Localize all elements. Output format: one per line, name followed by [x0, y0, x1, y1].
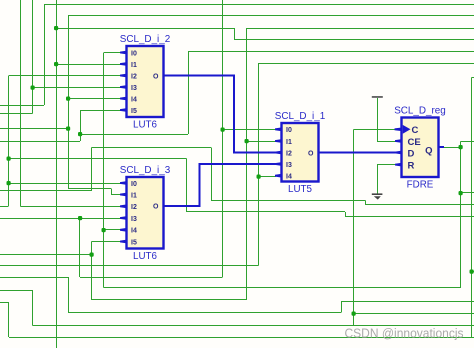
svg-text:SCL_D_i_1: SCL_D_i_1	[275, 111, 326, 122]
wire vertical net_i	[186, 159, 187, 213]
wire vertical net_f	[258, 63, 259, 266]
wire Q feedback bottom run	[104, 287, 461, 288]
wire staircase A bottom run	[33, 325, 474, 326]
junction dot junction I5 branch	[78, 132, 82, 136]
wire to I1 of SCL_D_i_3 part2	[111, 194, 121, 195]
pin I3 of SCL_D_i_1	[275, 162, 282, 166]
wire bottom run y312	[68, 312, 342, 313]
svg-text:I3: I3	[286, 162, 292, 169]
wire net_i horizontal	[9, 158, 187, 159]
junction dot junction I0_5	[221, 128, 225, 132]
pin CE of SCL_D_reg	[395, 139, 402, 143]
wire vertical net_h	[211, 148, 212, 201]
svg-text:SCL_D_reg: SCL_D_reg	[394, 106, 446, 117]
svg-text:I1: I1	[286, 139, 292, 146]
wire vertical from I3_3 net	[79, 218, 80, 277]
junction dot junction I4_3	[102, 228, 106, 232]
wire net_h right run	[211, 200, 366, 201]
junction dot junction I3_3 branch	[78, 216, 82, 220]
pin I0 of SCL_D_i_2	[120, 51, 127, 55]
svg-text:I2: I2	[131, 73, 137, 80]
wire vertical branch down y277	[68, 277, 69, 312]
wire to I5 of SCL_D_i_3	[92, 241, 122, 242]
wire vertical net_b	[68, 16, 69, 190]
wire to I4 of SCL_D_i_3	[104, 229, 122, 230]
pin I2 of SCL_D_i_2	[120, 74, 127, 78]
wire exit left net_g	[0, 113, 33, 114]
wire staircase A vertical	[32, 290, 33, 326]
wire vertical net_d	[246, 28, 247, 300]
pin C of SCL_D_reg	[395, 128, 403, 132]
wire net_c jog down	[234, 28, 235, 39]
wire vertical net_e	[188, 52, 189, 135]
wire branch right y313	[354, 313, 474, 314]
junction dot junction I3_2	[31, 86, 35, 90]
wire net_c right run	[234, 39, 474, 40]
wire to I0 of SCL_D_i_3	[9, 183, 122, 184]
wire net_i exit right	[345, 216, 474, 217]
pin I3 of SCL_D_i_3	[120, 216, 127, 220]
svg-text:CE: CE	[408, 137, 421, 148]
pin I1 of SCL_D_i_2	[120, 62, 127, 66]
wire to I5 of SCL_D_i_2	[80, 110, 121, 111]
junction dot junction Q stub	[459, 191, 463, 195]
wire net_h horizontal	[92, 147, 212, 148]
svg-text:FDRE: FDRE	[407, 180, 434, 191]
wire net O of SCL_D_i_3 to I3 of SCL_D_i_1 (selected, blue)	[164, 205, 201, 207]
pin I1 of SCL_D_i_1	[275, 139, 282, 143]
wire vertical net I5_3 down	[91, 242, 92, 301]
wire to C of SCL_D_reg	[354, 129, 395, 130]
wire vertical right edge net	[471, 78, 472, 338]
pin R of SCL_D_reg	[395, 163, 402, 167]
wire to I1 of SCL_D_i_3 jog	[111, 189, 112, 195]
pin I0 of SCL_D_i_3	[120, 181, 127, 185]
junction dot junction I1_2	[54, 62, 58, 66]
wire right edge net stub top	[472, 77, 474, 78]
junction dot junction left exit 254	[90, 253, 94, 257]
junction dot junction y313 branch	[352, 312, 356, 316]
ground symbol below R	[372, 193, 383, 199]
svg-text:I1: I1	[131, 192, 137, 199]
wire jog up y312 to y301	[341, 301, 342, 312]
svg-text:I0: I0	[286, 127, 292, 134]
wire exit left net I2 branch	[0, 206, 9, 207]
pin D of SCL_D_reg	[395, 151, 402, 155]
wire long horizontal y277 left part	[0, 277, 68, 278]
wire vertical net_a	[44, 5, 45, 106]
svg-text:I0: I0	[131, 181, 137, 188]
wire exit left from net_h	[0, 190, 92, 191]
pin I2 of SCL_D_i_1	[275, 151, 282, 155]
svg-text:LUT6: LUT6	[133, 251, 158, 262]
wire exit left from net_b	[0, 128, 68, 129]
pin I5 of SCL_D_i_2	[120, 108, 127, 112]
wire Q net exit right stub	[461, 192, 474, 193]
junction dot junction net_i	[7, 157, 11, 161]
svg-text:LUT6: LUT6	[133, 120, 158, 131]
junction dot junction Q	[459, 145, 463, 149]
svg-text:R: R	[408, 160, 415, 171]
svg-text:I4: I4	[131, 96, 137, 103]
svg-text:O: O	[153, 73, 159, 80]
svg-text:C: C	[412, 125, 419, 136]
pin I4 of SCL_D_i_1	[275, 174, 282, 178]
wire staircase B bottom run	[9, 337, 474, 338]
wire exit left net_a	[0, 105, 44, 106]
wire net_i right run	[187, 211, 346, 212]
LUT6 cell SCL_D_i_3	[120, 165, 171, 262]
wire R to ground	[377, 165, 378, 194]
wire vertical to I2 of SCL_D_i_3	[20, 0, 21, 207]
svg-text:D: D	[408, 148, 415, 159]
wire to I1 of SCL_D_i_2	[56, 64, 121, 65]
wire net O of SCL_D_i_1 to D of SCL_D_reg (selected, blue)	[319, 152, 397, 154]
wire Q net exit right top	[461, 141, 474, 142]
wire net_d top run	[247, 28, 474, 29]
wire exit right y301	[342, 301, 474, 302]
svg-text:I2: I2	[286, 150, 292, 157]
wire Q output stub of SCL_D_reg	[439, 146, 445, 148]
wire to I2 of SCL_D_i_2	[9, 75, 121, 76]
wire net_f top run	[259, 63, 474, 64]
wire vertical net I0/Q feedback	[103, 53, 104, 288]
wire staircase A from left	[0, 290, 33, 291]
wire to I2 of SCL_D_i_3	[21, 206, 122, 207]
wire net_b top run	[68, 15, 474, 16]
wire to I4 of SCL_D_i_2	[68, 98, 121, 99]
wire const bar to CE	[377, 98, 378, 141]
pin I3 of SCL_D_i_2	[120, 85, 127, 89]
wire to I1 of SCL_D_i_1	[247, 141, 277, 142]
junction dot junction I1_5	[245, 139, 249, 143]
wire from Q of SCL_D_reg	[443, 147, 461, 148]
svg-text:LUT5: LUT5	[288, 184, 313, 195]
wire staircase B vertical	[8, 303, 9, 338]
power bar (const) above CE	[372, 96, 383, 98]
pin I1 of SCL_D_i_3	[120, 193, 127, 197]
wire to CE of SCL_D_reg	[377, 141, 397, 142]
svg-text:CSDN @innovationcjs: CSDN @innovationcjs	[345, 326, 464, 341]
wire bottom run y300	[92, 299, 247, 300]
svg-text:I5: I5	[131, 239, 137, 246]
svg-text:O: O	[308, 150, 314, 157]
LUT5 cell SCL_D_i_1	[275, 111, 326, 195]
svg-text:I5: I5	[131, 108, 137, 115]
wire exit left net I5 branch	[0, 141, 80, 142]
wire net_c left run	[56, 28, 234, 29]
pin I4 of SCL_D_i_3	[120, 228, 127, 232]
svg-text:Q: Q	[425, 145, 432, 156]
wire vertical net_h stub	[91, 148, 92, 192]
wire vertical net I0_5	[222, 0, 223, 277]
wire to R of SCL_D_reg	[377, 164, 397, 165]
wire vertical net I5 branch	[80, 110, 81, 141]
wire net_e top run	[188, 51, 474, 52]
junction dot junction net_c	[54, 26, 58, 30]
wire net I5 branch to v14	[80, 134, 188, 135]
wire exit left from I5_3 net	[0, 254, 92, 255]
LUT6 cell SCL_D_i_2	[120, 34, 171, 131]
junction dot junction I4_5	[257, 175, 261, 179]
svg-text:I3: I3	[131, 85, 137, 92]
wire to I0 of SCL_D_i_1	[223, 129, 277, 130]
svg-text:I0: I0	[131, 50, 137, 57]
svg-text:O: O	[153, 204, 159, 211]
junction dot junction I4_2	[66, 97, 70, 101]
wire to I4 of SCL_D_i_1	[259, 176, 277, 177]
wire net O of SCL_D_i_2 to I2 of SCL_D_i_1 (selected, blue)	[164, 75, 236, 77]
wire long horizontal y266	[0, 265, 259, 266]
svg-text:SCL_D_i_2: SCL_D_i_2	[120, 34, 171, 45]
wire to I3 of SCL_D_i_2	[33, 87, 122, 88]
svg-text:I4: I4	[131, 228, 137, 235]
wire net_h jog down	[365, 201, 366, 206]
wire net_h exit right	[366, 204, 474, 205]
junction dot junction left exit	[66, 127, 70, 131]
wire vertical net C of SCL_D_reg	[353, 130, 354, 326]
wire to I1 of SCL_D_i_3 part1	[68, 188, 111, 189]
pin I5 of SCL_D_i_3	[120, 240, 127, 244]
wire vertical net_g	[32, 0, 33, 114]
wire right edge net stub mid	[472, 271, 474, 272]
wire vertical net_c full height	[56, 0, 57, 348]
pin I4 of SCL_D_i_2	[120, 97, 127, 101]
svg-text:I1: I1	[131, 62, 137, 69]
svg-text:I3: I3	[131, 216, 137, 223]
svg-text:SCL_D_i_3: SCL_D_i_3	[120, 165, 171, 176]
junction dot junction I0_3	[7, 181, 11, 185]
wire to I0 of SCL_D_i_2	[104, 52, 121, 53]
svg-text:I4: I4	[286, 174, 292, 181]
pin I0 of SCL_D_i_1	[275, 127, 282, 131]
wire long horizontal y277 right part	[80, 277, 223, 278]
wire net_i jog down	[345, 212, 346, 217]
wire to I3 of SCL_D_i_3	[0, 218, 121, 219]
FDRE flip-flop SCL_D_reg	[394, 106, 446, 191]
svg-text:I2: I2	[131, 204, 137, 211]
wire vertical Q net	[460, 142, 461, 289]
wire vertical net I2 branch	[8, 76, 9, 207]
pin I2 of SCL_D_i_3	[120, 204, 127, 208]
wire staircase B from left	[0, 302, 9, 303]
junction dot junction right edge	[470, 270, 474, 274]
wire net_a top run	[44, 4, 474, 5]
